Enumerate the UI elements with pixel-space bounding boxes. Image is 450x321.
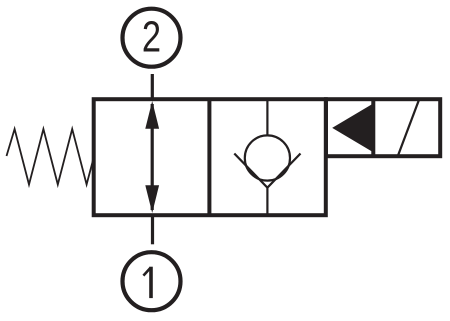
check valve stem upper (266, 99, 268, 136)
solenoid coil triangle (332, 103, 374, 153)
spring (7, 129, 95, 185)
solenoid box (326, 99, 440, 156)
valve body (94, 99, 326, 215)
flow path arrow (double-headed) (145, 101, 159, 213)
position divider (207, 99, 211, 215)
svg-text:2: 2 (142, 12, 161, 61)
port circle 1 (123, 252, 181, 310)
port circle 2 (123, 9, 181, 67)
check valve stem lower (266, 188, 268, 215)
wire valve body to port 1 (151, 215, 154, 244)
wire port 2 to valve body (151, 74, 154, 99)
check valve seat (234, 154, 300, 188)
solenoid divider (371, 99, 375, 156)
solenoid stroke diagonal (398, 100, 419, 156)
check valve ball (245, 135, 290, 180)
